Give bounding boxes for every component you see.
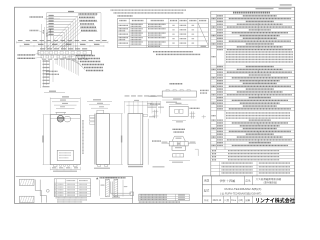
plan view extension verticals to unit bar [77,16,79,50]
title block row lines [202,184,294,186]
detail 1 left label [149,96,158,97]
caption above piping table [118,15,133,16]
tiny labels bottom of leader cluster [46,71,58,72]
spec table option rows [211,151,295,153]
company name Rinnai bold [256,198,295,203]
refrigerant pipe note title [96,177,98,179]
vent capsule right of fan [64,116,70,122]
title block label column [211,176,213,204]
left vertical dim chain of plan view [41,24,43,50]
leader verticals below bar [55,58,57,64]
header cells [67,180,76,181]
bottom panel border [16,176,133,178]
side view body [96,114,109,165]
duct pipe lines [109,182,111,194]
spec table tall note cell 1 [226,51,293,52]
detail 2 right pipe glyph [191,111,193,118]
detail 3 left dim arrow [162,143,170,145]
table B header texts [119,20,126,21]
fan circle with slits [57,115,64,122]
side front plate strip [94,114,96,165]
detail 1 plate [162,91,196,97]
detail 2 bottom dim [172,119,186,121]
front view body [50,115,80,165]
title block border [202,176,294,204]
svg-text:2022.12: 2022.12 [213,199,222,202]
duct wall hatched bars [106,179,110,197]
leader bundle convergence marks near bar [60,42,66,47]
detail 2 right label [190,108,200,109]
detail 3 right L mark [195,148,198,150]
bottom middle table [139,194,189,201]
side feet and bottom text [98,165,101,167]
dim 150 under plan [44,92,65,94]
duct bottom dim [100,198,133,200]
detail 2 far right tiny mark [202,116,206,118]
detail 2 main bar [169,106,188,116]
spec table outer border [211,11,295,176]
note under bottom table [139,201,180,202]
detail 2 left pipe glyph [154,110,156,118]
piping connection table [118,18,209,47]
svg-text:Free: Free [231,199,236,202]
front label plate [57,150,73,160]
spec table value column sub-dividers [257,23,259,26]
left dim numbers column below bar [40,60,42,88]
flue collar plate on top [56,111,67,113]
page number above frame top-right [280,4,292,5]
side right dim [121,114,123,165]
svg-text::RUFH-TE2406AW2(B)(X)SAMT): :RUFH-TE2406AW2(B)(X)SAMT) [224,193,261,196]
chain dimension rows above unit bar [17,41,109,43]
small notes inside frame top-right [256,8,274,9]
table B body cells [119,25,128,26]
detail 2 top dim [169,104,188,106]
spec table column dividers [216,14,218,149]
detail 1 title [170,83,183,85]
svg-text:(: ( [220,192,221,196]
plan view: nested dimension chains upper-left [47,15,78,17]
rear top-right marks [143,114,147,117]
side view top dims [87,100,112,102]
detail 3 bracket lower row [172,146,186,150]
wall section upper hatched [20,179,35,185]
rear right dim [147,119,149,165]
front view left vertical dim [43,115,45,165]
detail 3 bracket mid bar with cells [169,141,188,146]
detail 3 small bar below [173,154,184,157]
svg-text:(A3): (A3) [239,199,244,202]
note text above piping table [111,10,186,11]
svg-text:RUFH-TE2406AW2-6(B)(X): RUFH-TE2406AW2-6(B)(X) [225,187,262,191]
title model row [204,189,209,192]
notes under bottom-left table [56,197,87,198]
table B bottom half-row [148,46,160,47]
detail 1 dims [162,99,196,101]
rotated numbers on left chain [43,30,44,34]
detail 3 left note [152,140,161,141]
tiny numbers under bar stubs [42,59,46,60]
notes under table B [153,51,193,52]
front view feet [54,165,58,167]
detail 3 right dim arrow [188,143,196,145]
left small callout mid [30,30,39,31]
rear view number row above dims [125,95,130,96]
rear view body [128,114,143,165]
vertical label between front and side views [82,120,83,154]
duct right dim [122,180,124,197]
detail 3 bottom dim [169,160,190,162]
small circle marker [46,189,49,192]
front view bottom dims [50,168,80,170]
duct left dim [99,180,101,196]
labels right of rear dims [148,107,157,108]
spec table title row [211,13,295,15]
concent note top-left [30,16,43,17]
lower-right callout labels [76,55,95,56]
tiny labels just above bar [40,48,45,49]
plan view unit bar (top view) [38,50,91,55]
title bottom small cells [223,196,225,203]
detail 1 side note [200,90,209,91]
rear view dim ticks down to body [124,101,126,113]
side vent stub [97,110,104,113]
rear bottom text [128,166,143,167]
Z duct path [34,180,36,191]
plan view callout labels top-right with leaders [79,13,98,14]
plan view left callouts [18,54,35,55]
title row1 texts [204,179,209,181]
pipe elbow end [130,192,134,196]
note under detail 3 [153,166,165,167]
detail 3 title [173,129,185,130]
front view top dims [50,97,80,99]
duct top tiny dims [106,177,117,178]
rear view dim lines [125,101,161,103]
wall section lower hatched [20,196,35,202]
bottom-left table [54,179,90,197]
side pipe stubs [90,115,95,117]
spec table tall note cell 2 [226,112,290,113]
diagonal slash in table B last column [198,24,208,46]
detail 3 bracket top trapezoid [172,136,175,141]
accessories sub-table [211,165,295,167]
spec table row lines [211,16,295,18]
spec table cell texts [217,15,223,16]
small stubs under front bottom edge [60,165,62,167]
pipe stubs under bar [41,55,43,58]
page frame [15,7,295,203]
plan view: top 470 dimension line [47,12,102,14]
detail 2 left note [150,103,160,104]
